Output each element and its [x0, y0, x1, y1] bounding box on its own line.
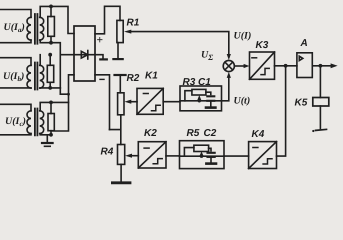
- wire bus vertical a-b: [59, 55, 61, 88]
- transformer Ta left winding: [27, 17, 31, 40]
- label U sigma: [201, 50, 213, 63]
- node burden-a top: [49, 5, 53, 9]
- rectifier bridge VD: [74, 26, 95, 81]
- wire primary-b bottom: [0, 87, 31, 89]
- svg-text:U(I): U(I): [234, 31, 252, 42]
- svg-text:K3: K3: [256, 40, 269, 51]
- transformer Ta core: [35, 14, 38, 44]
- svg-text:R1: R1: [127, 18, 140, 29]
- wire primary-c bottom: [0, 134, 31, 135]
- wire primary-c top: [0, 104, 31, 111]
- label K2: [144, 128, 157, 139]
- label R5: [187, 128, 200, 139]
- wire burden-c top stub: [50, 102, 52, 113]
- wire secondary-c top bus: [40, 102, 68, 110]
- amplifier A: [297, 53, 312, 78]
- diode VD: [81, 51, 88, 58]
- node A output junction: [319, 64, 323, 68]
- wire secondary-b bottom bus: [40, 87, 60, 89]
- wire bridge plus to R1: [95, 6, 120, 34]
- transformer Tc core: [35, 109, 38, 136]
- svg-text:K1: K1: [145, 71, 158, 82]
- summator Usum: [223, 60, 234, 71]
- node burden-a bottom: [49, 41, 53, 45]
- transformer Tc right winding: [40, 111, 44, 134]
- wire to K5: [319, 66, 321, 98]
- wire R4 wiper to K2: [131, 155, 139, 157]
- wire K2 to R5C2: [166, 155, 180, 157]
- wire secondary-b top to mid bus: [39, 55, 41, 66]
- node burden-b bottom: [48, 86, 52, 90]
- wire secondary-c bottom bus: [40, 134, 51, 135]
- svg-text:C1: C1: [198, 77, 211, 88]
- filter box R5C2: [180, 141, 225, 169]
- ground C2: [210, 157, 212, 162]
- comparator K2: [138, 142, 166, 168]
- svg-text:C2: C2: [204, 128, 217, 139]
- node burden-c bottom: [49, 133, 53, 137]
- svg-text:U(t): U(t): [234, 96, 251, 107]
- transformer Tc left winding: [27, 111, 31, 134]
- resistor R4: [118, 145, 125, 165]
- comparator K3: [250, 52, 275, 79]
- node burden-c top: [49, 101, 53, 105]
- svg-text:R3: R3: [183, 77, 196, 88]
- wire bus vertical to bridge input3: [51, 75, 74, 131]
- resistor burden-a: [48, 17, 55, 37]
- source U(Ib) label: [3, 71, 24, 83]
- wire R2 bottom join: [110, 115, 121, 145]
- label K3: [256, 40, 269, 51]
- wiper arrow R3: [197, 95, 201, 100]
- svg-text:U(Ic): U(Ic): [5, 116, 26, 128]
- svg-text:K4: K4: [252, 129, 265, 140]
- ground R1: [117, 43, 119, 59]
- wire burden-b top stub: [49, 55, 51, 66]
- wire K4 riser: [277, 66, 286, 156]
- wire R3C1 through line: [180, 100, 222, 102]
- wire bridge mid to ground: [95, 55, 103, 59]
- label R4: [101, 147, 114, 158]
- resistor burden-c: [48, 114, 54, 131]
- label C1: [198, 77, 211, 88]
- transformer Tb left winding: [27, 65, 31, 88]
- wire K1 to R3C1: [163, 101, 180, 103]
- wire R5C2 output: [224, 155, 249, 157]
- ground K5: [316, 129, 327, 130]
- source U(Ic) label: [5, 116, 26, 128]
- label +: [97, 35, 104, 47]
- resistor R1: [117, 20, 123, 42]
- relay K5: [313, 98, 329, 107]
- ground bridge-mid: [100, 58, 107, 60]
- svg-text:R4: R4: [101, 147, 114, 158]
- label K5: [295, 98, 308, 109]
- wire R1 wiper to summator (U(I)): [131, 32, 229, 57]
- svg-text:+: +: [97, 35, 104, 47]
- svg-text:UΣ: UΣ: [201, 50, 213, 63]
- wire primary-a top: [0, 10, 31, 18]
- label K4: [252, 129, 265, 140]
- wire bridge minus down: [95, 75, 110, 130]
- label U(t): [234, 96, 251, 107]
- wiper arrow R5: [199, 152, 203, 157]
- transformer Tb right winding: [40, 65, 44, 88]
- label U(I): [234, 31, 252, 42]
- svg-text:R5: R5: [187, 128, 200, 139]
- svg-text:R2: R2: [127, 73, 140, 84]
- resistor R3: [192, 89, 206, 95]
- wire R3C1 output U(t): [222, 77, 229, 101]
- comparator K4: [249, 142, 277, 169]
- svg-text:U(Ia): U(Ia): [4, 22, 25, 34]
- label R2: [127, 73, 140, 84]
- wire primary-a bottom: [0, 40, 31, 43]
- label A: [300, 38, 308, 49]
- comparator K1: [137, 88, 163, 114]
- ground channel-c: [46, 135, 48, 142]
- arrow summator to K3: [234, 65, 244, 67]
- label - (bridge minus): [100, 78, 104, 80]
- transformer Ta right winding: [40, 17, 44, 40]
- resistor burden-b: [47, 65, 53, 82]
- wire primary-b top: [0, 58, 31, 66]
- source U(Ia) label: [4, 22, 25, 34]
- wire secondary-a bottom bus to bridge mid input: [40, 40, 74, 55]
- label K1: [145, 71, 158, 82]
- ground over R2: [115, 74, 126, 76]
- label R3: [183, 77, 196, 88]
- wire K5 to ground: [319, 106, 321, 129]
- diode VD line: [74, 54, 95, 56]
- wire K3 to A: [275, 65, 297, 67]
- capacitor C1: [206, 92, 211, 94]
- label R1: [127, 18, 140, 29]
- node K3-K4 junction: [284, 64, 288, 68]
- wire secondary-a top bus: [40, 6, 74, 33]
- wire R5C2 through line: [180, 155, 225, 157]
- arrow into summator top: [227, 54, 231, 60]
- wire burden-a bottom stub: [50, 36, 52, 42]
- filter box R3C1: [180, 86, 222, 111]
- wire burden-a top stub: [50, 6, 52, 16]
- label C2: [204, 128, 217, 139]
- resistor R5: [194, 145, 209, 151]
- wire burden-b bottom stub: [49, 82, 51, 88]
- svg-text:K2: K2: [144, 128, 157, 139]
- capacitor C2: [209, 148, 211, 151]
- wire R2 wiper to K1: [130, 101, 137, 103]
- svg-text:U(Ib): U(Ib): [3, 71, 24, 83]
- ground C1: [210, 101, 212, 106]
- transformer Tb core: [35, 63, 38, 90]
- ground R4: [120, 164, 122, 181]
- wire burden-c bottom stub: [50, 131, 52, 135]
- resistor R2: [118, 93, 124, 115]
- wire jog b-bottom to c bus: [60, 88, 68, 94]
- node jog-c: [67, 93, 70, 96]
- node burden-b top: [48, 53, 52, 57]
- wire A output arrow: [312, 65, 331, 67]
- svg-text:K5: K5: [295, 98, 308, 109]
- svg-text:A: A: [300, 38, 308, 49]
